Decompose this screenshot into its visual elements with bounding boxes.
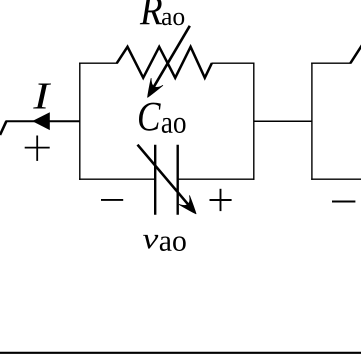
polarity − (cell 2, left of its capacitor) (332, 201, 355, 203)
capacitor C_ao right plate (176, 145, 178, 215)
label C_ao (139, 103, 185, 133)
wire: cell 2 top edge (311, 62, 351, 64)
wire: cell 2 bottom edge (311, 178, 361, 180)
wire: cropped zigzag stub at left edge (0, 121, 6, 135)
wire: cell 1 top edge, right segment (211, 62, 254, 64)
wire: cell 1 top edge, left segment (79, 62, 117, 64)
wire: cell 1 bottom edge, right segment (178, 178, 255, 180)
polarity + (right of capacitor) (210, 189, 232, 211)
wire: cell 1 bottom edge, left segment (79, 178, 155, 180)
wire: left lead into cell 1 (6, 120, 81, 122)
figure caption rule (0, 352, 361, 354)
variable-capacitor arrow through C_ao (138, 145, 202, 218)
label v_ao (143, 235, 186, 251)
wire: link between cell 1 and cell 2 (254, 120, 312, 122)
polarity − (left of capacitor) (101, 199, 123, 201)
variable-resistor arrow through R_ao (142, 26, 190, 101)
label I (33, 84, 51, 109)
polarity + (left of cell 1) (25, 136, 50, 161)
resistor R_ao (zigzag on top edge) (117, 47, 212, 78)
wire: cell 1 left side (79, 63, 81, 180)
resistor of cell 2 (cropped zigzag start) (350, 46, 361, 63)
capacitor C_ao left plate (154, 145, 156, 215)
wire: cell 2 left side (311, 63, 313, 180)
label R_ao (140, 0, 184, 25)
wire: cell 1 right side (253, 63, 255, 180)
current direction arrowhead (triangle, points left) (32, 112, 50, 130)
